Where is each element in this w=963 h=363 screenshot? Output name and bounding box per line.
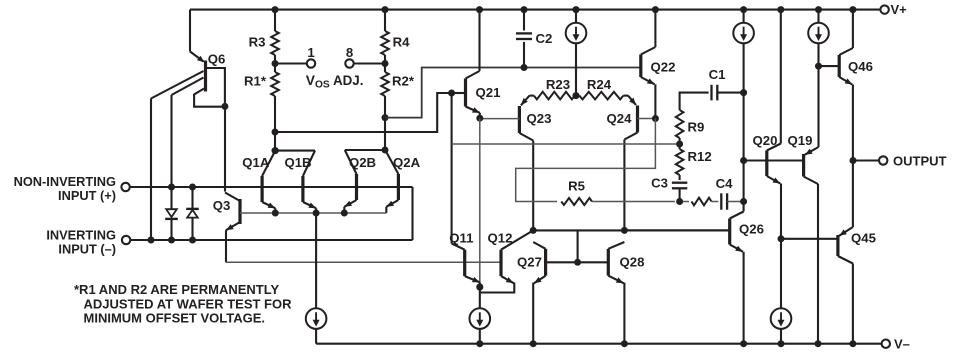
svg-text:1: 1 bbox=[307, 45, 314, 60]
svg-text:ADJUSTED AT WAFER TEST FOR: ADJUSTED AT WAFER TEST FOR bbox=[84, 296, 293, 311]
svg-text:Q45: Q45 bbox=[851, 231, 876, 246]
svg-text:*R1 AND R2 ARE PERMANENTLY: *R1 AND R2 ARE PERMANENTLY bbox=[74, 282, 279, 297]
svg-text:NON-INVERTING: NON-INVERTING bbox=[14, 174, 116, 189]
svg-text:Q2A: Q2A bbox=[393, 155, 421, 170]
svg-text:R2*: R2* bbox=[392, 73, 415, 88]
svg-text:Q19: Q19 bbox=[788, 133, 813, 148]
svg-text:MINIMUM OFFSET VOLTAGE.: MINIMUM OFFSET VOLTAGE. bbox=[84, 311, 266, 326]
svg-text:R9: R9 bbox=[688, 120, 705, 135]
svg-text:Q1B: Q1B bbox=[284, 155, 311, 170]
svg-text:C3: C3 bbox=[651, 176, 668, 191]
svg-text:INPUT (+): INPUT (+) bbox=[58, 188, 116, 203]
svg-text:V+: V+ bbox=[891, 2, 908, 17]
svg-text:Q2B: Q2B bbox=[349, 155, 376, 170]
svg-text:8: 8 bbox=[346, 45, 353, 60]
svg-text:Q20: Q20 bbox=[753, 133, 778, 148]
svg-text:Q24: Q24 bbox=[607, 111, 633, 126]
svg-text:C1: C1 bbox=[709, 67, 726, 82]
svg-text:C4: C4 bbox=[716, 176, 734, 191]
svg-text:Q21: Q21 bbox=[476, 85, 501, 100]
svg-text:R3: R3 bbox=[249, 35, 266, 50]
svg-text:VOS ADJ.: VOS ADJ. bbox=[306, 73, 364, 91]
svg-text:Q46: Q46 bbox=[848, 59, 873, 74]
svg-text:R24: R24 bbox=[587, 77, 612, 92]
svg-text:Q1A: Q1A bbox=[242, 155, 270, 170]
svg-text:Q12: Q12 bbox=[488, 231, 513, 246]
svg-text:Q11: Q11 bbox=[449, 231, 473, 246]
svg-text:R23: R23 bbox=[546, 77, 570, 92]
svg-text:OUTPUT: OUTPUT bbox=[893, 153, 947, 168]
svg-text:R5: R5 bbox=[568, 179, 585, 194]
svg-text:Q23: Q23 bbox=[527, 111, 552, 126]
svg-text:R12: R12 bbox=[688, 149, 712, 164]
svg-text:Q3: Q3 bbox=[213, 198, 231, 213]
svg-text:R1*: R1* bbox=[244, 73, 267, 88]
svg-text:INVERTING: INVERTING bbox=[46, 228, 116, 243]
svg-text:V–: V– bbox=[894, 336, 910, 351]
svg-text:C2: C2 bbox=[536, 31, 553, 46]
svg-text:Q28: Q28 bbox=[620, 255, 645, 270]
svg-text:Q6: Q6 bbox=[208, 52, 226, 67]
svg-text:Q26: Q26 bbox=[739, 221, 764, 236]
svg-text:Q27: Q27 bbox=[517, 255, 542, 270]
svg-text:Q22: Q22 bbox=[651, 60, 676, 75]
svg-text:R4: R4 bbox=[393, 35, 411, 50]
svg-text:INPUT (–): INPUT (–) bbox=[58, 242, 116, 257]
